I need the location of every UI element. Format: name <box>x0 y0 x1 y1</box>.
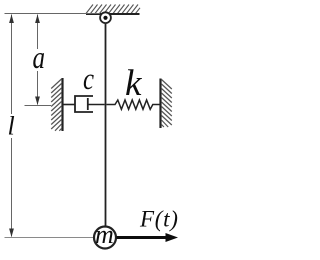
spring k <box>107 100 161 109</box>
right wall line <box>159 79 161 129</box>
top extension line <box>5 13 101 15</box>
left wall hatching <box>51 79 61 131</box>
dimension a line (lower segment) <box>37 71 39 105</box>
svg-text:F(t): F(t) <box>139 207 179 232</box>
pivot dot <box>103 16 107 20</box>
svg-text:c: c <box>83 61 94 96</box>
mass circle <box>94 227 116 249</box>
right wall hatching <box>162 80 172 128</box>
dimension a line (upper segment) <box>37 15 39 50</box>
extension line at damper level <box>25 105 52 107</box>
damper piston <box>87 98 89 110</box>
ceiling hatching <box>86 5 140 14</box>
svg-text:l: l <box>8 112 15 141</box>
dimension l arrow down <box>9 229 14 238</box>
svg-text:k: k <box>125 63 142 104</box>
dimension a arrow down <box>35 97 40 106</box>
dimension l line (lower segment) <box>11 138 13 237</box>
bottom extension line <box>5 237 94 239</box>
force arrow F(t) <box>117 236 169 239</box>
left wall line <box>61 78 63 131</box>
damper rod from wall <box>64 104 76 106</box>
damper piston rod <box>88 104 105 106</box>
dimension a arrow up <box>35 15 40 24</box>
dimension l arrow up <box>9 15 14 24</box>
rod <box>105 24 107 226</box>
damper cylinder <box>75 96 93 112</box>
pivot circle <box>100 12 111 23</box>
svg-text:m: m <box>95 220 114 249</box>
ceiling line <box>86 13 140 15</box>
svg-text:a: a <box>33 39 46 75</box>
dimension l line (upper segment) <box>11 15 13 115</box>
